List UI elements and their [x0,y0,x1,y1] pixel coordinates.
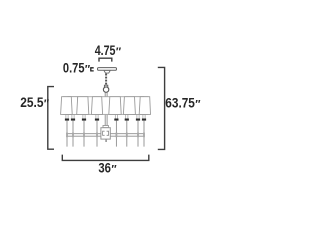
chain [105,74,107,86]
dim pointer (0.75) [91,68,94,71]
front shade S5 [109,97,121,115]
svg-text:0.75: 0.75 [63,61,85,76]
svg-text:25.5: 25.5 [20,95,44,110]
dim bracket top (4.75) [99,58,112,61]
back shade band [63,97,148,115]
svg-text:″: ″ [111,164,117,176]
svg-text:″: ″ [116,46,122,58]
dim bracket right (63.75) [158,67,165,149]
back shade S7 [133,97,145,115]
candle stems [67,121,144,147]
body foot stub [105,139,107,142]
center body [101,128,110,139]
canopy [98,68,117,71]
back shade S2 [67,97,78,115]
svg-text:″: ″ [85,64,91,76]
svg-text:″: ″ [195,99,201,111]
socket caps (dark) [65,119,146,121]
body inner left bracket [103,131,105,135]
center body top block [103,126,108,128]
center column (double line) [104,92,106,127]
ball finial [103,87,108,92]
collar above ball [104,85,107,87]
front shade S3 [77,97,89,115]
svg-text:63.75: 63.75 [165,96,195,111]
horizontal rail (double line) [66,133,144,135]
front shade S1 [61,97,73,115]
socket necks [66,114,145,118]
front shade S4 [91,97,102,115]
canopy collar [104,70,110,73]
svg-text:4.75: 4.75 [95,43,116,58]
front shade S8 [139,97,150,115]
body inner right bracket [107,131,109,135]
svg-text:36: 36 [98,161,111,176]
dim bracket bottom (36) [62,155,149,161]
front shade S6 [123,97,135,115]
bar knuckles [66,133,145,138]
dim bracket left (25.5) [48,87,54,150]
svg-text:″: ″ [44,98,50,110]
